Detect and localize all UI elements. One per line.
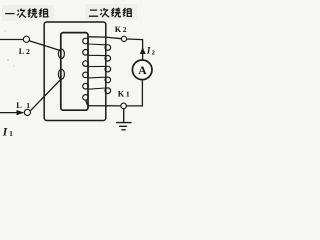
svg-text:2: 2 <box>152 50 155 57</box>
primary winding turn 2 <box>58 69 64 79</box>
wire: primary winding to L1 diagonal <box>31 80 61 111</box>
secondary winding right loop 4 <box>105 77 111 83</box>
secondary winding left loop 2 <box>83 50 89 56</box>
ammeter A1 <box>132 60 152 80</box>
svg-text:I: I <box>2 126 8 138</box>
terminal L1 <box>24 109 30 115</box>
svg-text:1: 1 <box>9 130 13 138</box>
scan tint around captions <box>2 5 54 21</box>
secondary winding left loop 6 <box>83 95 89 101</box>
wire: left lead to L2 <box>0 39 23 41</box>
arrow I1 head <box>17 110 25 115</box>
char 绕 <box>112 8 121 17</box>
secondary winding right loop 1 <box>105 45 111 51</box>
char 绕 <box>28 8 37 17</box>
secondary winding crossing wire 2 <box>88 54 105 56</box>
secondary winding right loop 2 <box>105 56 111 62</box>
wire: K1 to ammeter leg <box>126 105 142 107</box>
svg-text:1: 1 <box>26 101 30 110</box>
terminal K1 <box>121 103 127 109</box>
primary winding turn 1 <box>58 49 64 58</box>
svg-text:2: 2 <box>123 25 127 34</box>
label 一次绕组 (primary winding caption) <box>5 8 48 17</box>
char 次 <box>17 9 26 18</box>
secondary winding left loop 1 <box>83 38 89 44</box>
svg-text:I: I <box>146 46 151 56</box>
wire: left lead to L1 <box>0 112 23 114</box>
secondary winding crossing wire 1 <box>88 43 105 46</box>
svg-text:A: A <box>138 65 147 77</box>
svg-text:K: K <box>115 25 122 34</box>
wire: secondary bottom to K1 <box>86 100 121 106</box>
transformer core inner rectangle <box>61 33 88 111</box>
secondary winding right loop 3 <box>105 66 111 72</box>
wire: L2 diagonal to primary winding <box>29 41 60 51</box>
char 一 <box>5 13 14 15</box>
secondary winding right loop 5 <box>105 88 111 94</box>
char 二 <box>89 10 98 16</box>
ground <box>117 109 131 130</box>
secondary winding top wire to K2 <box>89 37 122 39</box>
label 二次绕组 (secondary winding caption) <box>89 8 132 17</box>
char 组 <box>39 9 48 17</box>
svg-text:L: L <box>19 47 25 56</box>
svg-text:K: K <box>118 89 125 98</box>
secondary winding crossing wire 3 <box>88 65 105 67</box>
secondary winding left loop 5 <box>83 83 89 89</box>
wire: ammeter to K1 wire <box>141 80 143 106</box>
svg-text:1: 1 <box>126 89 130 98</box>
secondary winding crossing wire 4 <box>88 76 105 79</box>
secondary winding left loop 3 <box>83 61 89 67</box>
secondary winding crossing wire 5 <box>88 88 105 89</box>
svg-text:L: L <box>16 101 22 110</box>
wire: K2 to ammeter branch <box>127 39 143 60</box>
terminal K2 <box>121 36 126 41</box>
svg-text:2: 2 <box>26 47 30 56</box>
char 组 <box>123 8 132 16</box>
secondary winding left loop 4 <box>83 72 89 78</box>
arrow I2 head <box>140 47 146 54</box>
char 次 <box>100 8 109 17</box>
terminal L2 <box>23 36 29 42</box>
transformer core outer rectangle <box>44 22 106 121</box>
